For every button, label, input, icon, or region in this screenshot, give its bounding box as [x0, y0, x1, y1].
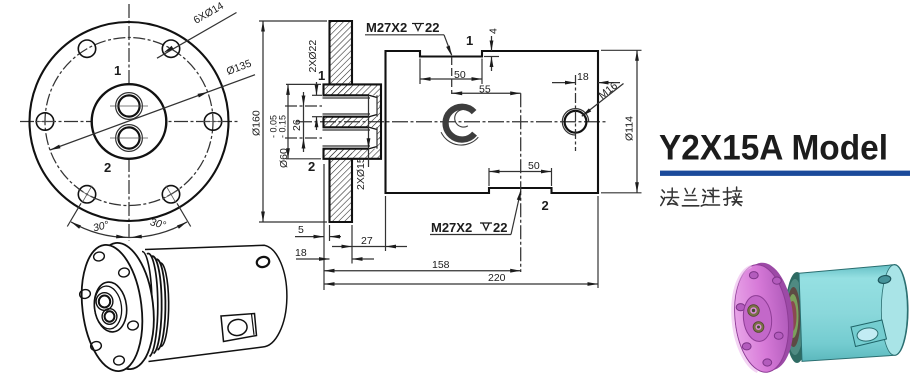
- port1 3d: [748, 305, 760, 317]
- svg-text:22: 22: [493, 220, 507, 235]
- port1 iso: [96, 293, 113, 311]
- svg-text:50: 50: [454, 69, 466, 81]
- flange highlight: [728, 266, 763, 373]
- svg-text:30°: 30°: [149, 216, 167, 231]
- flange front face: [75, 241, 149, 374]
- dim M27X2 top: [365, 20, 453, 57]
- C logo thick arc: [441, 107, 478, 145]
- right end cap: [881, 265, 907, 355]
- svg-text:1: 1: [114, 63, 121, 78]
- svg-text:Ø60: Ø60: [278, 148, 290, 168]
- hub outline: [324, 84, 382, 158]
- dim 50 top: [419, 59, 421, 85]
- center boss 3d: [741, 294, 774, 343]
- char jie: [723, 187, 742, 206]
- svg-text:- 0.15: - 0.15: [278, 115, 288, 138]
- svg-text:Y2X15A Model: Y2X15A Model: [659, 128, 888, 168]
- boss iso: [92, 280, 130, 334]
- port thread lines thin: [323, 95, 378, 167]
- port2 axis dash: [520, 93, 522, 272]
- port bore edges: [323, 94, 370, 96]
- dim 18 bottom: [351, 225, 353, 264]
- main centerline: [296, 121, 606, 123]
- neck dark ring: [785, 272, 809, 363]
- top-right small hole: [256, 256, 271, 269]
- M16 hole: [565, 111, 587, 133]
- dim d160: [259, 20, 327, 22]
- svg-text:2XØ15: 2XØ15: [355, 157, 367, 190]
- svg-text:2: 2: [542, 198, 549, 213]
- svg-text:50: 50: [528, 160, 540, 172]
- port 1 circles: [116, 93, 143, 120]
- svg-text:M27X2: M27X2: [431, 220, 472, 235]
- char lan: [682, 189, 699, 206]
- port1 bore white band: [322, 95, 377, 116]
- port2 bore white band: [322, 127, 377, 148]
- dim 50 bottom: [488, 168, 490, 186]
- flange disc rear rim: [735, 260, 799, 373]
- svg-text:220: 220: [488, 272, 506, 284]
- dim 6X d14 leader: [157, 13, 237, 59]
- flange disc front face: [730, 262, 794, 375]
- center boss circle d60: [92, 84, 167, 159]
- port2 iso: [102, 309, 117, 325]
- svg-text:Ø114: Ø114: [624, 116, 636, 141]
- hub hatched: [324, 84, 382, 158]
- port 2 circles: [116, 125, 143, 152]
- bolt holes iso: [79, 251, 139, 366]
- neck rings: [142, 251, 152, 359]
- port1 axis dash: [451, 57, 453, 94]
- svg-text:2: 2: [104, 160, 111, 175]
- bolt holes 6x: [36, 40, 221, 203]
- chinese subtitle 法兰连接 drawn as strokes: [661, 187, 742, 206]
- dim d114: [601, 49, 642, 51]
- flange bolt holes 3d: [736, 272, 783, 367]
- svg-text:158: 158: [432, 259, 450, 271]
- svg-text:18: 18: [295, 247, 307, 259]
- svg-text:55: 55: [479, 84, 491, 96]
- dim M27X2 bottom: [430, 189, 523, 235]
- svg-text:22: 22: [425, 20, 439, 35]
- port2 centerline: [285, 137, 382, 139]
- port crosshairs: [110, 105, 148, 107]
- char fa: [661, 188, 679, 206]
- flange rear rim: [86, 239, 160, 372]
- body cylinder: [145, 245, 287, 361]
- dim 158: [324, 270, 521, 272]
- svg-text:6XØ14: 6XØ14: [192, 0, 226, 27]
- char lian: [701, 188, 719, 206]
- bottom pad: [221, 314, 257, 342]
- port1 centerline: [285, 105, 382, 107]
- dim d135: [50, 75, 255, 150]
- plate outline: [323, 21, 382, 222]
- blue underline bar: [660, 171, 910, 176]
- leader M16: [582, 84, 624, 117]
- svg-text:M27X2: M27X2: [366, 20, 407, 35]
- C logo inner thin arc: [455, 109, 469, 127]
- svg-text:1: 1: [318, 68, 325, 83]
- flange outer circle: [30, 22, 229, 221]
- svg-text:Ø135: Ø135: [225, 58, 253, 78]
- bottom pad 3d: [851, 320, 887, 347]
- dim 30 deg arc: [71, 222, 187, 238]
- svg-text:18: 18: [577, 71, 589, 83]
- svg-text:5: 5: [298, 224, 304, 236]
- centerline vertical: [128, 4, 130, 241]
- dim 220: [597, 196, 599, 288]
- svg-text:1: 1: [466, 33, 473, 48]
- bolt hole tick marks: [35, 122, 223, 208]
- svg-text:27: 27: [361, 235, 373, 247]
- centerline horizontal: [20, 121, 238, 123]
- svg-text:2: 2: [308, 159, 315, 174]
- svg-text:Ø160: Ø160: [251, 110, 263, 136]
- dim 27: [385, 196, 387, 251]
- dim d60 with tolerance: [286, 83, 321, 85]
- port2 3d: [753, 322, 764, 333]
- flange plate hatched: [330, 21, 353, 222]
- body outline: [386, 51, 599, 193]
- dim 5: [323, 164, 325, 290]
- dim 55: [452, 92, 521, 94]
- svg-text:30°: 30°: [92, 219, 110, 234]
- body cylinder 3d: [799, 265, 908, 362]
- svg-text:26: 26: [291, 119, 303, 131]
- C logo outer thin arc: [441, 132, 478, 145]
- dim 18 top right: [552, 82, 576, 84]
- dim 4: [484, 56, 499, 58]
- bolt circle (dashed): [45, 38, 213, 206]
- top-right hole 3d: [878, 275, 892, 285]
- svg-text:4: 4: [488, 28, 500, 34]
